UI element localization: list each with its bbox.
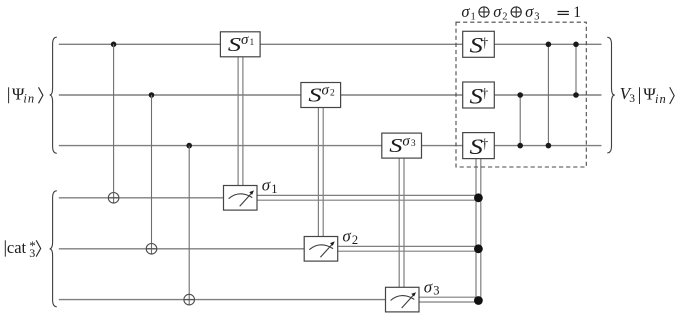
CNOT 1 wire	[113, 44, 115, 203]
classical double vertical S^s1 to M1	[238, 57, 243, 186]
svg-text:σ: σ	[493, 2, 502, 21]
CZ B dot q3	[546, 143, 552, 149]
CNOT 2 control dot	[149, 92, 155, 98]
gate S^sigma3 U3	[382, 133, 422, 158]
svg-text:1: 1	[271, 182, 277, 196]
svg-text:†: †	[481, 136, 488, 151]
CZ A dot q2	[517, 92, 523, 98]
measurement M2	[304, 237, 338, 262]
svg-text:†: †	[481, 35, 488, 50]
wire a1	[59, 197, 224, 199]
gate Sdagger 1	[463, 31, 495, 57]
CNOT 2 wire	[151, 95, 153, 254]
dashed conditional box	[456, 22, 586, 167]
classical double vertical from Sdg3 down to a3	[476, 159, 481, 301]
wire q1	[59, 43, 602, 45]
svg-text:σ: σ	[262, 176, 271, 195]
wire q3	[59, 145, 602, 147]
gate S^sigma1 U1	[220, 32, 260, 57]
svg-text:2: 2	[330, 89, 335, 99]
svg-text:in: in	[23, 92, 35, 106]
svg-text:3: 3	[534, 12, 539, 23]
CZ B wire	[547, 44, 549, 145]
gate Sdagger 2	[463, 82, 495, 108]
title sigma1 xor sigma2 xor sigma3 = 1	[461, 2, 581, 23]
svg-text:1: 1	[573, 4, 581, 21]
CNOT 1 control dot	[111, 42, 117, 48]
label V3 |Psi_in>	[620, 84, 675, 106]
svg-text:σ: σ	[461, 2, 470, 21]
classical double wire from M2	[338, 246, 481, 251]
brace left psi-in	[50, 37, 57, 153]
classical double vertical S^s2 to M2	[318, 107, 323, 236]
classical control dot a3	[474, 296, 483, 305]
svg-text:σ: σ	[402, 133, 410, 149]
label sigma2	[342, 227, 358, 247]
gate Sdagger 3	[463, 133, 495, 159]
svg-text:S: S	[308, 85, 321, 107]
classical double wire from M3	[419, 297, 481, 302]
classical control dot a1	[474, 193, 483, 202]
svg-text:1: 1	[250, 38, 255, 48]
measurement M3	[386, 287, 420, 312]
CZ C wire	[575, 44, 577, 95]
CNOT 1 target	[108, 193, 119, 204]
wire a2	[59, 248, 304, 250]
svg-text:σ: σ	[241, 32, 249, 48]
CZ C dot q1	[573, 42, 579, 48]
svg-text:3: 3	[433, 284, 439, 298]
svg-text:σ: σ	[322, 83, 330, 99]
svg-text:S: S	[389, 135, 402, 157]
brace left cat	[50, 191, 57, 307]
CZ A wire	[519, 95, 521, 146]
CZ C dot q2	[573, 92, 579, 98]
label |cat3*>	[5, 238, 40, 260]
CNOT 3 wire	[188, 146, 190, 305]
classical double wire from M1	[257, 195, 481, 200]
svg-text:2: 2	[352, 233, 358, 247]
svg-text:3: 3	[629, 93, 635, 105]
svg-text:cat: cat	[7, 238, 27, 257]
svg-text:*: *	[29, 238, 36, 253]
svg-text:2: 2	[502, 12, 507, 23]
gate S^sigma2 U2	[301, 83, 341, 108]
classical double vertical S^s3 to M3	[399, 158, 404, 287]
CNOT 3 control dot	[186, 143, 192, 149]
svg-text:σ: σ	[525, 2, 534, 21]
classical control dot a2	[474, 244, 483, 253]
measurement M1	[224, 186, 258, 211]
CNOT 3 target	[184, 294, 195, 305]
CNOT 2 target	[146, 244, 157, 255]
svg-text:in: in	[655, 92, 667, 106]
svg-text:†: †	[481, 86, 488, 101]
label |Psi_in>	[9, 85, 43, 106]
svg-text:1: 1	[471, 12, 476, 23]
CZ A dot q3	[517, 143, 523, 149]
svg-text:3: 3	[411, 139, 416, 149]
brace right output	[607, 37, 615, 153]
svg-text:σ: σ	[342, 227, 351, 246]
wire a3	[59, 299, 386, 301]
wire q2	[59, 94, 602, 96]
svg-text:S: S	[228, 34, 241, 56]
label sigma1	[262, 176, 278, 196]
svg-text:σ: σ	[424, 277, 433, 296]
CZ B dot q1	[546, 42, 552, 48]
label sigma3	[424, 277, 440, 297]
